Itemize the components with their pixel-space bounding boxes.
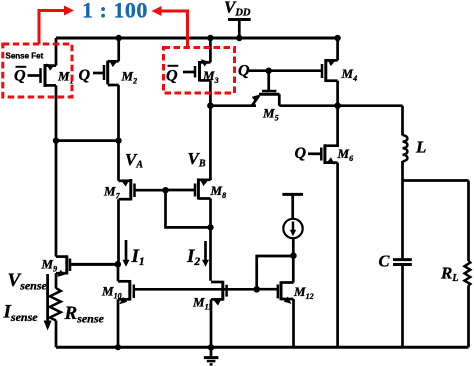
wire: Q to M4 gate — [249, 69, 322, 72]
node dot: M12 drain node — [290, 252, 297, 259]
node dot: Q branch — [266, 68, 272, 74]
wire: output node down to capacitor — [401, 181, 404, 259]
wire: bias bar to current source — [291, 194, 294, 219]
ground symbol — [204, 347, 219, 364]
wire: output node horizontal — [403, 179, 469, 182]
transistor M3 (sense FET, PMOS) — [183, 59, 210, 81]
wire: M1 drain column down to link — [55, 85, 58, 256]
svg-text:Q: Q — [166, 68, 178, 85]
VDD supply tap — [228, 20, 251, 39]
svg-text:Q: Q — [295, 145, 307, 162]
current source I bias — [283, 219, 302, 238]
svg-text:Q: Q — [14, 68, 26, 85]
transistor M7 (PMOS mirrored) — [119, 179, 166, 201]
wire: M12 source down to ground rail — [292, 299, 295, 347]
svg-text:C: C — [379, 251, 391, 270]
node dot: M10 at ground rail — [115, 344, 121, 350]
wire: M2 source column — [117, 38, 120, 61]
wire: M8 drain down — [209, 199, 212, 281]
transistor M2 (main PMOS) — [93, 60, 119, 85]
wire: M5 drain to switch node — [279, 104, 337, 107]
transistor M11 (NMOS mirrored) — [211, 281, 227, 306]
node dot: link left — [53, 137, 59, 143]
wire: M4 source column — [336, 38, 339, 60]
node dot: M3 source on rail — [207, 35, 213, 41]
transistor M12 (NMOS) — [257, 281, 294, 304]
transistor M1 (sense FET, PMOS) — [28, 64, 57, 88]
wire: RL top lead — [467, 181, 470, 262]
wire: current source to M12 drain — [292, 238, 295, 282]
node dot: ground tie — [208, 344, 214, 350]
inductor L — [403, 135, 408, 161]
wire: Rsense bottom to ground rail — [55, 321, 58, 348]
wire: M12 drain-gate tie — [257, 256, 294, 289]
transistor M8 (PMOS) — [166, 178, 211, 199]
red arrow: left (from M1 box to ratio label) — [39, 6, 74, 45]
wire: M7 drain down to I1 node — [117, 199, 120, 264]
node dot: M8 drain tie — [207, 224, 213, 230]
node dot: M4 source on rail — [334, 35, 340, 41]
node dot: I1 node (M9 gate tie) — [115, 261, 122, 268]
wire: switch node to inductor — [338, 104, 403, 107]
wire: M8 gate-drain tie — [166, 190, 211, 227]
wire: ground rail — [56, 346, 469, 349]
current arrow I2 — [202, 241, 209, 267]
node dot: switch node — [334, 102, 341, 109]
transistor M6 (low-side NMOS) — [308, 106, 338, 165]
svg-text:L: L — [415, 137, 426, 156]
wire: inductor top lead — [401, 106, 404, 136]
node dot: M7/M8 gate tie — [162, 187, 168, 193]
wire: M2 drain column down through link to M7 — [117, 85, 120, 181]
node dot: link right — [115, 137, 121, 143]
wire: M3 drain column down to M8 — [209, 106, 212, 180]
svg-text:1 : 100: 1 : 100 — [82, 0, 148, 23]
resistor Rsense — [50, 288, 61, 321]
wire: M3 source column — [209, 38, 212, 62]
node dot: M12 gate tie — [253, 286, 260, 293]
red arrow: right (from M3 box to ratio label) — [152, 6, 188, 48]
node dot: VDD tap on rail — [236, 35, 242, 41]
wire: M6 source down to ground rail — [336, 163, 339, 348]
wire: M10 source down to ground rail — [117, 299, 120, 347]
bias rail bar — [282, 193, 303, 196]
svg-text:Q: Q — [79, 67, 91, 84]
svg-text:Q: Q — [238, 62, 250, 79]
wire: M9 source to Rsense — [55, 273, 58, 288]
current arrow Isense — [44, 274, 52, 331]
wire: inductor bottom lead — [401, 161, 404, 181]
wire: capacitor bottom to ground rail — [401, 266, 404, 348]
wire: link between M1 and M2 drains — [56, 139, 119, 142]
wire: VDD top rail — [56, 37, 338, 40]
svg-text:Sense Fet: Sense Fet — [6, 52, 44, 61]
transistor M5 (equalizing NMOS, horizontal) — [210, 91, 279, 106]
transistor M4 (high-side PMOS) — [322, 59, 338, 82]
label Qbar (M1 gate) — [14, 67, 26, 85]
wire: M1 source column — [55, 38, 58, 66]
wire: M10/M11/M12 gate line — [134, 288, 257, 291]
capacitor C — [393, 260, 412, 265]
resistor RL — [465, 261, 471, 285]
wire: Q branch down to M5 gate — [267, 71, 270, 91]
label Qbar (M3 gate) — [166, 66, 178, 85]
red dashed box: sense FET M3 — [164, 48, 235, 94]
wire: M11 source down to ground rail — [210, 299, 213, 347]
wire: M4 drain to switch node — [336, 81, 339, 106]
wire: RL bottom lead — [467, 285, 470, 347]
current arrow I1 — [123, 240, 130, 267]
wire: M3 drain column to M5 node — [209, 80, 212, 106]
transistor M9 (sense NMOS mirrored) — [56, 255, 118, 277]
transistor M10 (NMOS mirrored) — [118, 264, 134, 304]
node dot: M3 drain / M5 source — [207, 102, 214, 109]
node dot: M2 source on rail — [116, 35, 122, 41]
red dashed box: sense FET M1 — [3, 44, 72, 97]
